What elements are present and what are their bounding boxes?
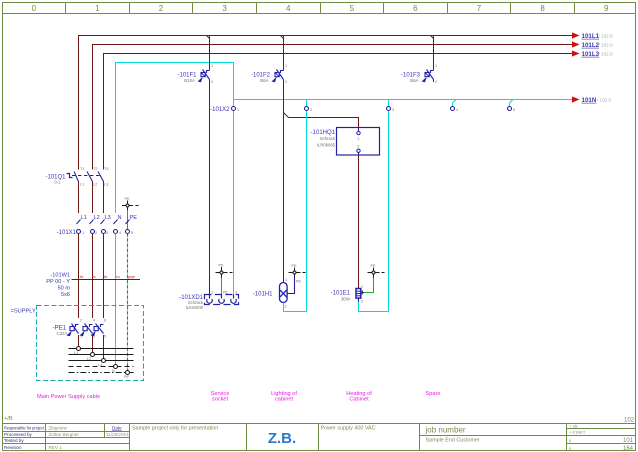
wire L3 X1 to PE1	[103, 234, 105, 319]
svg-text:L1: L1	[80, 183, 84, 187]
PE cross at heater	[368, 268, 385, 278]
svg-text:/ 102.0: / 102.0	[597, 97, 611, 102]
svg-text:= ZB: = ZB	[569, 423, 578, 428]
svg-text:3: 3	[392, 108, 394, 112]
svg-text:B10A: B10A	[184, 78, 195, 83]
wire PE to heater	[364, 278, 374, 293]
svg-text:30W: 30W	[341, 297, 351, 302]
lamp H1	[280, 283, 288, 303]
svg-text:socket: socket	[212, 397, 229, 403]
node L2	[91, 353, 95, 357]
wire L2 X1 to PE1	[92, 234, 94, 319]
circuit breaker PE1 pole 1	[70, 324, 79, 334]
node PE	[126, 371, 130, 375]
svg-text:+ K1NET: + K1NET	[569, 430, 586, 435]
svg-text:5: 5	[104, 335, 106, 339]
column numbers	[32, 4, 609, 13]
node N	[114, 365, 118, 369]
PE cross at lamp	[289, 268, 306, 278]
wire F2 drop from 101L1	[283, 36, 285, 71]
wire 101L3 horizontal	[104, 54, 573, 170]
svg-text:102: 102	[624, 418, 635, 424]
svg-text:3: 3	[106, 231, 108, 235]
svg-text:2: 2	[310, 108, 312, 112]
terminal X2:4	[451, 100, 459, 113]
svg-text:Responsible for project: Responsible for project	[4, 426, 45, 431]
svg-text:2: 2	[435, 80, 437, 84]
terminal X2:2	[305, 100, 313, 312]
busbar L2	[69, 354, 134, 356]
svg-text:2: 2	[95, 231, 97, 235]
terminal X2:3	[387, 100, 395, 312]
svg-text:L2: L2	[87, 357, 91, 361]
linkage dashes	[72, 175, 100, 177]
svg-text:1: 1	[80, 335, 82, 339]
busbar L3	[69, 360, 134, 362]
handle	[67, 174, 73, 178]
svg-text:1: 1	[82, 231, 84, 235]
svg-text:PE: PE	[223, 291, 229, 295]
svg-text:L1: L1	[74, 351, 78, 355]
pole 3	[103, 181, 105, 213]
svg-text:p.: p.	[569, 445, 572, 450]
svg-text:4: 4	[119, 231, 121, 235]
wire 101L1 horizontal	[79, 36, 573, 170]
pole 2	[92, 181, 94, 213]
svg-text:2: 2	[159, 4, 164, 13]
svg-text:1: 1	[435, 64, 437, 68]
wire lamp pin2 to N loop	[284, 303, 307, 312]
heater E1	[356, 289, 364, 299]
svg-text:2: 2	[211, 80, 213, 84]
svg-text:2: 2	[285, 80, 287, 84]
wire F1 to socket pin 1	[209, 80, 211, 295]
svg-text:3: 3	[222, 4, 227, 13]
svg-text:ILR08065: ILR08065	[317, 142, 336, 147]
wire F3 drop from 101L1	[433, 36, 435, 71]
wire F2 to lamp pin 1	[283, 80, 285, 283]
svg-text:PE: PE	[125, 197, 131, 201]
svg-text:2: 2	[235, 291, 237, 295]
svg-text:4: 4	[456, 108, 458, 112]
title block	[2, 424, 636, 451]
svg-text:101L3: 101L3	[582, 51, 600, 58]
svg-text:+/B: +/B	[4, 416, 13, 422]
tap junction L1 at F3	[431, 36, 434, 39]
svg-text:Sample project only for presen: Sample project only for presentation	[132, 426, 218, 432]
svg-text:Schrack: Schrack	[320, 136, 336, 141]
svg-text:Power supply 400 VAC: Power supply 400 VAC	[321, 426, 376, 432]
conductor ticks above X1	[77, 220, 130, 225]
wire 101L2 horizontal	[93, 45, 573, 170]
cable W1	[72, 279, 141, 281]
svg-text:Processed by: Processed by	[4, 432, 33, 437]
terminal X1:4	[114, 230, 118, 234]
svg-text:L2: L2	[94, 215, 100, 221]
svg-text:p.: p.	[569, 438, 572, 443]
tap junction L1 at F1	[207, 36, 210, 39]
arrow 101L3	[572, 50, 580, 56]
wire name labels above X1	[81, 215, 138, 221]
contact PE	[221, 295, 223, 299]
svg-text:4: 4	[286, 4, 291, 13]
svg-text:6: 6	[104, 319, 106, 323]
svg-text:1: 1	[285, 278, 287, 282]
svg-text:1: 1	[211, 291, 213, 295]
svg-text:=SUPPLY: =SUPPLY	[11, 309, 37, 315]
svg-text:Sample End Customer: Sample End Customer	[426, 438, 480, 444]
svg-text:5: 5	[513, 108, 515, 112]
circuit breaker F1	[201, 70, 210, 80]
svg-text:B6A: B6A	[410, 78, 418, 83]
svg-text:bk: bk	[104, 275, 108, 279]
svg-text:9: 9	[604, 4, 609, 13]
wire HQ1 to heater pin 1	[358, 155, 360, 288]
svg-text:5: 5	[131, 231, 133, 235]
wire PE to lamp	[287, 278, 295, 294]
socket pin labels	[211, 291, 237, 295]
cable conductor tags	[80, 275, 136, 279]
svg-text:C32A: C32A	[57, 331, 68, 336]
terminal X1:1	[77, 230, 81, 234]
svg-text:L3: L3	[105, 215, 111, 221]
wire F1 drop from 101L1	[209, 36, 211, 71]
node L3	[102, 359, 106, 363]
svg-text:PE: PE	[130, 215, 138, 221]
wire F3 spare stub	[433, 80, 435, 83]
svg-text:5: 5	[350, 4, 355, 13]
svg-text:Cabinet: Cabinet	[349, 397, 369, 403]
terminal X1:3	[102, 230, 106, 234]
svg-text:164: 164	[623, 446, 634, 452]
disconnect switch Q1	[67, 172, 104, 214]
svg-text:2: 2	[357, 145, 359, 149]
svg-text:PE: PE	[296, 280, 302, 284]
PE node cross at X1	[122, 201, 139, 211]
svg-text:7: 7	[477, 4, 482, 13]
svg-text:-101X1: -101X1	[57, 230, 77, 236]
svg-text:101L2: 101L2	[582, 42, 600, 49]
PE1 pin labels	[80, 319, 106, 339]
svg-text:-101X2: -101X2	[210, 107, 230, 113]
svg-text:1: 1	[285, 64, 287, 68]
svg-text:/ 102.0: / 102.0	[599, 33, 613, 38]
PE side pin	[361, 292, 364, 294]
arrow 101L2	[572, 41, 580, 47]
svg-text:-101W1: -101W1	[50, 273, 70, 279]
svg-text:2: 2	[80, 319, 82, 323]
wire PE X1 to busbar	[127, 234, 129, 373]
svg-text:REV 1: REV 1	[49, 445, 63, 450]
wire N from X1 up and over to X2	[116, 63, 234, 214]
svg-text:Z.B.: Z.B.	[268, 430, 296, 447]
circuit breaker PE1 pole 2	[83, 324, 93, 334]
svg-text:PE: PE	[292, 264, 298, 268]
pole 1	[78, 181, 80, 213]
wire PE from cross to X1	[127, 210, 129, 230]
wire L1 X1 to PE1	[78, 234, 80, 319]
terminal X1:2	[91, 230, 95, 234]
Q1 pin labels	[80, 167, 108, 187]
wire N X1 to busbar	[115, 234, 117, 367]
terminal X1:5	[126, 230, 130, 234]
svg-text:101L1: 101L1	[582, 33, 600, 40]
svg-text:5x6: 5x6	[61, 292, 70, 298]
svg-text:1: 1	[357, 137, 359, 141]
svg-text:Revision: Revision	[4, 445, 22, 450]
svg-text:101: 101	[623, 438, 634, 444]
svg-text:L3: L3	[104, 183, 108, 187]
circuit breaker F3	[425, 70, 434, 80]
svg-text:8: 8	[540, 4, 545, 13]
wires PE1 to busbars	[78, 335, 80, 349]
svg-text:gnye: gnye	[128, 275, 135, 279]
busbar L1	[69, 348, 134, 350]
svg-text:Spare: Spare	[426, 391, 441, 397]
svg-text:cabinet: cabinet	[275, 397, 293, 403]
svg-text:2: 2	[285, 305, 287, 309]
svg-text:PE: PE	[124, 375, 130, 379]
svg-text:6: 6	[413, 4, 418, 13]
svg-text:1: 1	[95, 4, 100, 13]
svg-text:Zbigniew: Zbigniew	[49, 426, 68, 431]
wire PE to socket	[221, 278, 223, 295]
arrow 101L1	[572, 32, 580, 38]
svg-text:2: 2	[361, 300, 363, 304]
svg-text:ILKW200: ILKW200	[186, 305, 204, 310]
svg-text:T2: T2	[93, 167, 97, 171]
svg-text:1: 1	[237, 108, 239, 112]
svg-text:1: 1	[361, 285, 363, 289]
svg-text:Zoltan Bergner: Zoltan Bergner	[49, 432, 80, 437]
arrow 101N	[572, 96, 580, 102]
svg-text:PE: PE	[219, 264, 225, 268]
svg-text:N: N	[112, 369, 115, 373]
PE cross at socket	[216, 267, 233, 278]
circuit breaker F2	[275, 70, 284, 80]
wire 101N bus	[234, 99, 573, 101]
svg-text:101N: 101N	[582, 97, 597, 104]
svg-text:T3: T3	[104, 167, 108, 171]
title block texts	[4, 426, 122, 451]
tap junction L1 at F2	[281, 36, 284, 39]
svg-text:job number: job number	[425, 426, 466, 435]
svg-text:PP 00 - Y: PP 00 - Y	[46, 279, 70, 285]
busbar PE dash-dot	[69, 372, 134, 374]
svg-text:/ 102.0: / 102.0	[599, 42, 613, 47]
wire heater pin2 to N loop	[358, 298, 360, 302]
svg-text:Date: Date	[112, 426, 122, 431]
socket XD1	[205, 295, 239, 305]
svg-text:bk: bk	[80, 275, 84, 279]
svg-text:L2: L2	[93, 183, 97, 187]
location box =SUPPLY	[37, 306, 144, 381]
contact 2	[233, 295, 235, 299]
svg-text:bk: bk	[92, 275, 96, 279]
wire tap from F2 to HQ1	[284, 113, 359, 128]
svg-text:-101H1: -101H1	[253, 292, 273, 298]
node L1	[77, 347, 81, 351]
svg-text:N: N	[118, 215, 122, 221]
svg-text:L1: L1	[81, 215, 87, 221]
svg-text:0-1: 0-1	[54, 180, 61, 185]
svg-text:Main Power Supply cable: Main Power Supply cable	[37, 394, 100, 400]
svg-text:L3: L3	[98, 363, 102, 367]
svg-text:bu: bu	[116, 275, 120, 279]
svg-text:1: 1	[211, 64, 213, 68]
contact 1	[209, 295, 211, 299]
svg-text:/ 102.0: / 102.0	[599, 51, 613, 56]
svg-text:PE: PE	[371, 264, 377, 268]
terminal X2:5	[508, 100, 516, 113]
svg-text:11/25/2014: 11/25/2014	[106, 432, 129, 437]
svg-text:50 m: 50 m	[58, 286, 71, 292]
svg-text:4: 4	[93, 319, 95, 323]
svg-text:0: 0	[32, 4, 37, 13]
thermostat HQ1 box	[337, 128, 380, 156]
svg-text:T1: T1	[80, 167, 84, 171]
svg-text:-101HQ1: -101HQ1	[311, 130, 336, 136]
terminal X2:1	[232, 100, 240, 295]
busbar N dashed	[69, 366, 134, 368]
svg-text:B6A: B6A	[260, 78, 268, 83]
svg-text:3: 3	[93, 335, 95, 339]
circuit breaker PE1 pole 3	[94, 324, 104, 334]
svg-text:Tested by: Tested by	[4, 438, 24, 443]
